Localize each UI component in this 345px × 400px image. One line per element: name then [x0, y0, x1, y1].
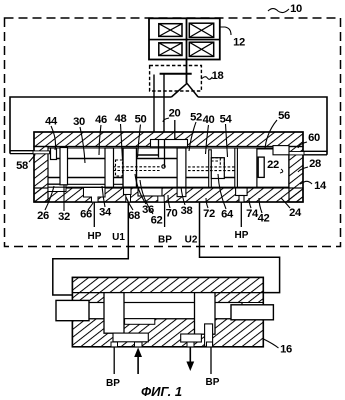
- svg-text:34: 34: [99, 207, 112, 219]
- port recess left: [113, 333, 148, 342]
- svg-text:58: 58: [16, 160, 28, 172]
- leader 10: [268, 9, 289, 13]
- wire left channel to 58: [10, 151, 36, 154]
- BP feed line right: [210, 347, 212, 374]
- hatched left wall: [34, 147, 48, 203]
- svg-text:66: 66: [80, 209, 92, 221]
- pilot channel walls into body: [159, 120, 175, 167]
- leader 46: [99, 125, 101, 155]
- BP stub: [164, 202, 166, 227]
- svg-text:44: 44: [45, 116, 58, 128]
- actuator body 16: [72, 277, 263, 346]
- sleeve wall H: [235, 148, 238, 187]
- interior floor line: [48, 186, 289, 188]
- bottom-left ledge recess: [48, 184, 66, 192]
- spool lower edge: [48, 177, 235, 179]
- U1 pipe: [53, 202, 129, 295]
- leader 48: [121, 124, 123, 160]
- leader 44: [51, 126, 56, 150]
- piston B: [60, 148, 68, 185]
- leader 68: [126, 197, 133, 210]
- HP left port recess: [84, 188, 106, 202]
- coil box bottom-right: [189, 42, 213, 56]
- hatch actuator bottom: [72, 319, 263, 347]
- HP right port recess: [236, 188, 248, 196]
- svg-text:52: 52: [190, 112, 202, 124]
- svg-text:40: 40: [203, 114, 215, 126]
- U1 port slot: [124, 188, 132, 195]
- HP left stub: [93, 202, 95, 227]
- port recess right: [181, 334, 202, 342]
- leader 38: [181, 187, 185, 205]
- leader 34: [102, 186, 105, 207]
- pilot seat ball: [162, 165, 165, 168]
- svg-text:32: 32: [58, 211, 70, 223]
- pilot tee bar: [160, 73, 192, 75]
- svg-text:12: 12: [233, 37, 245, 49]
- right rod stub: [231, 305, 273, 320]
- svg-text:48: 48: [115, 113, 127, 125]
- leader 66: [88, 203, 93, 210]
- left rod stub: [56, 300, 89, 320]
- leader 18: [201, 77, 212, 80]
- svg-text:26: 26: [37, 210, 49, 222]
- svg-text:24: 24: [289, 207, 302, 219]
- piston D: [123, 148, 137, 187]
- svg-text:20: 20: [169, 108, 181, 120]
- svg-text:46: 46: [95, 114, 107, 126]
- svg-text:64: 64: [221, 209, 234, 221]
- svg-text:72: 72: [203, 208, 215, 220]
- leader 42: [259, 198, 262, 213]
- outlet slot through right wall: [288, 152, 304, 155]
- coil box top-left: [159, 24, 182, 37]
- leader 72: [206, 198, 208, 208]
- leader 24: [281, 198, 290, 208]
- interior ceiling line: [48, 147, 289, 149]
- flange pocket: [125, 319, 155, 325]
- leader 36: [135, 174, 146, 204]
- spool stem slot: [177, 188, 186, 197]
- svg-text:16: 16: [280, 343, 292, 355]
- hatch actuator upper strip right: [215, 293, 263, 303]
- svg-text:38: 38: [181, 205, 193, 217]
- leader 14: [300, 181, 312, 184]
- piston 22: [258, 157, 264, 177]
- HP right stub: [240, 202, 242, 227]
- leader 40: [206, 125, 209, 154]
- rod bore band: [88, 303, 242, 319]
- pilot stage dashed box 18: [150, 66, 202, 92]
- svg-text:14: 14: [314, 180, 327, 192]
- pilot channel pair 20: [154, 75, 164, 141]
- leader 64: [218, 174, 226, 209]
- inlet slot 58 through left wall: [33, 151, 50, 154]
- down arrow outflow: [186, 347, 194, 371]
- wire from coils to pilot: [186, 60, 188, 84]
- valve body block: [34, 132, 303, 202]
- leader 60: [298, 142, 307, 148]
- svg-text:50: 50: [135, 114, 147, 126]
- svg-text:HP: HP: [88, 231, 102, 242]
- leader 56: [265, 120, 277, 148]
- end chamber step: [273, 146, 289, 155]
- hatch actuator upper strip left: [72, 293, 104, 303]
- funnel legs: [171, 83, 198, 97]
- pilot port notch in top bar: [151, 140, 188, 147]
- dashed enclosure 10: [5, 18, 341, 247]
- svg-text:BP: BP: [106, 378, 120, 389]
- leader 20: [163, 118, 169, 122]
- piston A: [51, 148, 57, 160]
- leader 54: [226, 124, 228, 157]
- svg-text:54: 54: [220, 114, 233, 126]
- leader 32: [63, 185, 65, 211]
- svg-text:42: 42: [258, 213, 270, 225]
- leader 30: [80, 127, 85, 163]
- port slot left a: [111, 342, 118, 347]
- leader 26: [45, 186, 54, 210]
- wire right channel to 60: [303, 151, 327, 155]
- port slot right a: [187, 342, 194, 347]
- hatched top bar: [34, 132, 303, 147]
- hatched bottom bar: [34, 188, 303, 202]
- leader 16: [264, 339, 279, 348]
- leader 74: [249, 198, 251, 208]
- solenoid assembly 12: [149, 18, 220, 59]
- coil box bottom-left: [159, 43, 182, 56]
- svg-text:BP: BP: [158, 235, 172, 246]
- leader 28: [298, 167, 308, 172]
- BP port recess: [138, 188, 162, 196]
- svg-text:BP: BP: [206, 377, 220, 388]
- hatch actuator top bar: [72, 277, 263, 292]
- svg-text:U1: U1: [112, 232, 125, 243]
- svg-text:56: 56: [278, 110, 290, 122]
- right piston: [195, 293, 216, 335]
- BP feed line left: [113, 347, 115, 374]
- dashed passage left: [113, 160, 160, 176]
- coil box top-right: [189, 23, 213, 37]
- dashed passage right: [188, 158, 235, 171]
- svg-text:ФИГ. 1: ФИГ. 1: [141, 384, 182, 399]
- svg-text:22: 22: [267, 159, 279, 171]
- leader 12: [220, 27, 231, 35]
- svg-text:68: 68: [128, 210, 140, 222]
- up arrow inflow: [134, 348, 142, 375]
- port slot right b: [207, 342, 213, 347]
- spool upper edge: [57, 155, 178, 159]
- leader 52: [189, 122, 196, 151]
- sleeve wall F: [209, 150, 212, 187]
- svg-text:10: 10: [290, 3, 302, 15]
- piston C: [105, 148, 114, 187]
- left piston: [104, 293, 124, 334]
- port slot left b: [135, 342, 143, 347]
- wire outer loop right: [198, 97, 327, 155]
- leader 70: [168, 195, 170, 208]
- leader 22: [280, 169, 283, 173]
- spool center land E: [177, 148, 186, 187]
- svg-text:18: 18: [212, 70, 224, 82]
- svg-text:U2: U2: [185, 235, 198, 246]
- svg-text:60: 60: [308, 132, 320, 144]
- leader 62: [140, 180, 153, 214]
- svg-text:30: 30: [73, 116, 85, 128]
- svg-text:62: 62: [151, 215, 163, 227]
- chamber shelf line: [48, 183, 131, 185]
- svg-text:HP: HP: [235, 230, 249, 241]
- wire outer loop top line: [10, 97, 171, 154]
- leader 50: [138, 125, 141, 158]
- svg-text:28: 28: [309, 158, 321, 170]
- leader 58: [29, 155, 35, 162]
- U2 pipe: [200, 202, 280, 293]
- svg-text:70: 70: [166, 208, 178, 220]
- end chamber 22: [257, 149, 289, 187]
- hatched right wall: [289, 147, 303, 203]
- inner box G: [211, 158, 224, 179]
